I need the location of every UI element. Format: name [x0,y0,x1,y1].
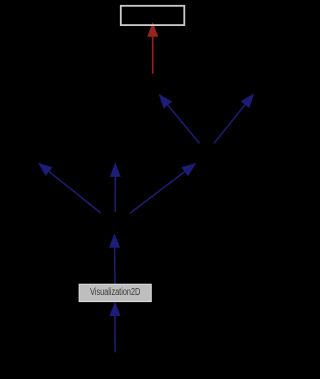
wire: inheritance arrow node1 to left base [38,163,100,213]
wire: inheritance arrow node2 to node3 [159,95,199,144]
wire: inheritance arrow node1 to middle base [110,163,120,212]
wire: inheritance arrow node2 to node4 [214,94,254,143]
svg-text:Visualization2D: Visualization2D [90,287,140,298]
wire: inheritance arrow bottom node to Visualization2D [110,302,120,352]
wire: inheritance arrow Visualization2D to node1 [110,234,120,284]
node: Visualization2D (current class, grey fill, light border) [79,284,151,301]
node: top base class box (light border, dark interior) [121,6,185,25]
wire: inheritance arrow node1 to right base (node2) [130,163,195,213]
wire: red inheritance arrow node3 to top box [148,23,158,74]
